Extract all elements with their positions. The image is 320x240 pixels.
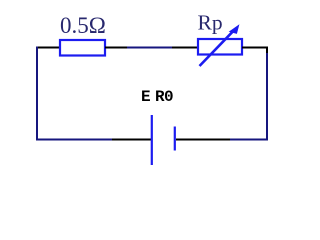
svg-text:0.5Ω: 0.5Ω [60,13,106,38]
rheostat Rp body [198,39,242,55]
wire top-mid black segment right [172,47,198,49]
battery short plate (negative) [174,127,176,151]
wire bottom-right (navy) [230,139,268,141]
svg-text:E R0: E R0 [141,88,174,106]
rheostat Rp arrowhead [229,24,240,34]
wire right vertical top black stub [266,47,268,54]
wire top-mid navy segment [127,47,172,49]
wire top-mid black segment left [105,47,127,49]
wire bottom black from battery [176,139,230,141]
resistor R1 0.5ohm body [60,40,105,56]
wire right vertical (navy) [266,53,268,141]
wire top-right horizontal (black) [242,47,268,49]
rheostat Rp arrow shaft [200,32,233,66]
wire top-left horizontal (black) [36,47,60,49]
battery long plate (positive) [151,115,153,165]
wire left vertical (navy) [36,47,38,141]
svg-text:Rp: Rp [198,11,223,35]
wire bottom-left (navy) [36,139,112,141]
wire bottom black to battery [112,139,151,141]
